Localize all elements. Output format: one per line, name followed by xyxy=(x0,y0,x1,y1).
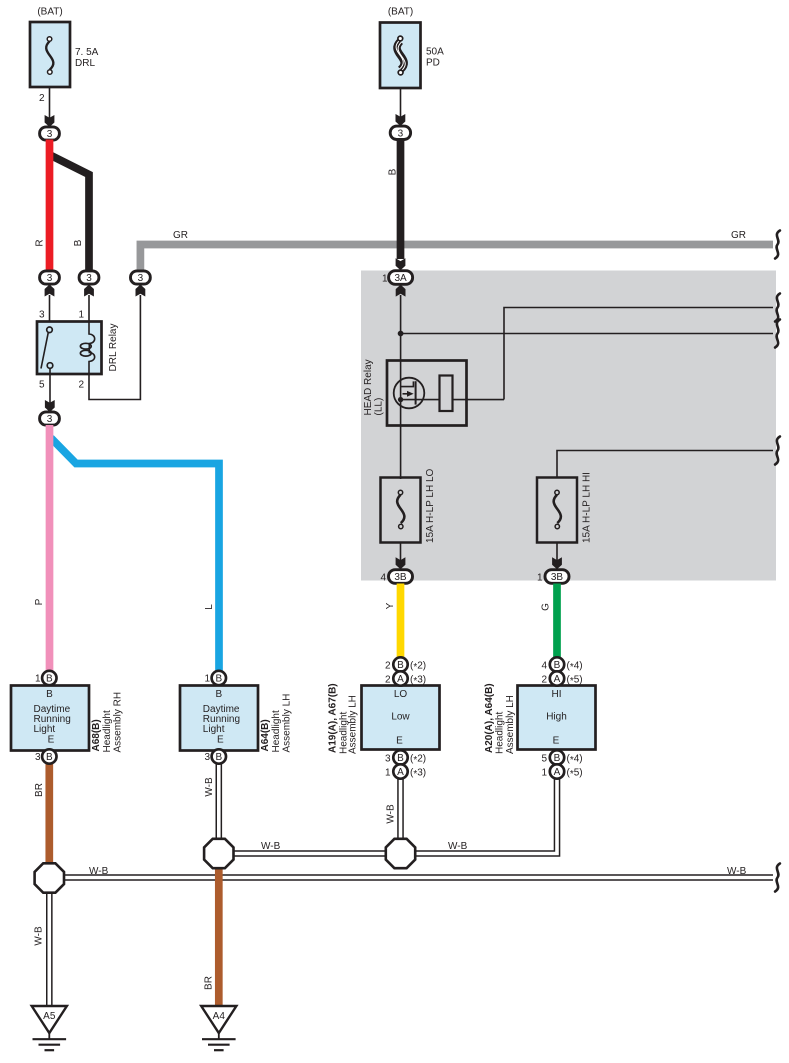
wire HI branch to right break xyxy=(557,451,773,478)
svg-text:Assembly RH: Assembly RH xyxy=(113,692,124,753)
wire fuse F4 to connector 3B xyxy=(556,543,558,562)
svg-text:15A H-LP LH HI: 15A H-LP LH HI xyxy=(582,472,593,543)
relay HEAD (LL) xyxy=(363,359,504,425)
svg-text:(*4): (*4) xyxy=(567,753,583,766)
svg-text:Light: Light xyxy=(34,724,56,735)
svg-text:(*3): (*3) xyxy=(410,674,426,687)
svg-text:Headlight: Headlight xyxy=(271,710,282,752)
pin 4 B (*4) of lamp HI xyxy=(541,657,582,673)
svg-text:A5: A5 xyxy=(43,1011,56,1022)
svg-text:3: 3 xyxy=(47,414,53,425)
pin 3 B of lamp A68 xyxy=(35,749,57,763)
svg-text:Assembly LH: Assembly LH xyxy=(505,695,516,754)
relay DRL xyxy=(37,322,119,375)
svg-text:Headlight: Headlight xyxy=(495,712,506,754)
wire relay pin5 down xyxy=(49,368,51,404)
lamp HI High beam A20(A) A64(B) xyxy=(518,686,596,750)
pin 1 B of lamp A64 xyxy=(204,671,226,685)
svg-text:Y: Y xyxy=(385,602,396,609)
svg-text:3: 3 xyxy=(39,310,45,321)
connector 3 (top mid) xyxy=(390,126,410,139)
svg-text:2: 2 xyxy=(385,660,391,671)
svg-text:W-B: W-B xyxy=(448,841,468,852)
break in wire GR xyxy=(775,231,780,259)
svg-text:3: 3 xyxy=(86,273,92,284)
wire relay pin1 to connector xyxy=(88,295,90,322)
svg-text:DRL: DRL xyxy=(75,58,95,69)
svg-text:15A H-LP LH LO: 15A H-LP LH LO xyxy=(425,468,436,543)
svg-text:GR: GR xyxy=(731,230,746,241)
wire main vertical in relay block xyxy=(400,295,402,479)
svg-text:(*2): (*2) xyxy=(410,660,426,673)
wire B branch (black) xyxy=(50,155,89,272)
lamp LO Low beam A19(A) A67(B) xyxy=(362,686,440,750)
wire R (red) xyxy=(46,140,54,272)
svg-text:A68(B): A68(B) xyxy=(91,719,102,751)
wire B (thick black) xyxy=(397,140,405,260)
svg-text:1: 1 xyxy=(385,767,391,778)
svg-text:A19(A), A67(B): A19(A), A67(B) xyxy=(328,683,339,753)
svg-text:B: B xyxy=(46,752,53,763)
svg-text:BR: BR xyxy=(204,976,215,990)
svg-text:A64(B): A64(B) xyxy=(260,719,271,751)
svg-text:5: 5 xyxy=(39,380,45,391)
wire BR from junction J2 to ground A4 xyxy=(215,862,223,1006)
wire junction to right break xyxy=(401,333,773,335)
pin 5 B (*4) of lamp HI xyxy=(541,750,582,766)
svg-text:3: 3 xyxy=(398,128,404,139)
junction J1 xyxy=(35,863,64,892)
svg-text:W-B: W-B xyxy=(204,777,215,797)
svg-text:E: E xyxy=(396,736,403,747)
svg-text:(*3): (*3) xyxy=(410,767,426,780)
svg-text:2: 2 xyxy=(541,674,547,685)
svg-text:P: P xyxy=(34,598,45,605)
wire W-B from lamp HI down and left to junction J2 xyxy=(231,779,557,854)
svg-text:3: 3 xyxy=(204,752,210,763)
svg-text:HEAD Relay: HEAD Relay xyxy=(363,359,374,415)
svg-text:LO: LO xyxy=(394,689,408,700)
svg-text:(BAT): (BAT) xyxy=(37,7,62,18)
svg-text:2: 2 xyxy=(385,674,391,685)
wire BR from lamp A68 to junction J1 xyxy=(45,764,53,868)
svg-text:Light: Light xyxy=(203,724,225,735)
wire fuse F3 to connector 3B xyxy=(400,543,402,562)
wire upper output to right break xyxy=(504,308,773,400)
svg-text:2: 2 xyxy=(39,93,45,104)
svg-text:B: B xyxy=(554,753,561,764)
svg-text:W-B: W-B xyxy=(386,804,397,824)
svg-text:1: 1 xyxy=(541,767,547,778)
svg-text:(BAT): (BAT) xyxy=(388,7,413,18)
svg-text:Assembly LH: Assembly LH xyxy=(282,694,293,753)
wire W-B from lamp A64 to junction J2 xyxy=(216,764,223,845)
svg-text:2: 2 xyxy=(78,380,84,391)
svg-text:3B: 3B xyxy=(394,572,407,583)
wire W-B horizontal lower (to right break) xyxy=(60,874,773,881)
svg-text:5: 5 xyxy=(541,753,547,764)
svg-text:W-B: W-B xyxy=(261,841,281,852)
svg-text:R: R xyxy=(35,239,46,246)
pin 3 B (*2) of lamp LO xyxy=(385,750,426,766)
wire fuse F1 to connector xyxy=(49,87,51,119)
svg-text:1: 1 xyxy=(537,573,543,584)
svg-text:Headlight: Headlight xyxy=(102,710,113,752)
pin 3 B of lamp A64 xyxy=(204,749,226,763)
wire L (blue) xyxy=(51,438,219,671)
svg-text:3: 3 xyxy=(35,752,41,763)
connector 3 (row 2, left) xyxy=(40,271,60,284)
svg-text:B: B xyxy=(46,673,53,684)
svg-text:E: E xyxy=(553,736,560,747)
svg-text:1: 1 xyxy=(35,674,41,685)
svg-text:B: B xyxy=(73,239,84,246)
svg-text:1: 1 xyxy=(382,274,388,285)
svg-text:W-B: W-B xyxy=(34,926,45,946)
connector 3B (right) xyxy=(537,570,569,584)
svg-text:E: E xyxy=(48,735,55,746)
junction dot xyxy=(398,331,404,337)
wire W-B from junction J1 to ground A5 xyxy=(46,890,53,1006)
lamp A68 Daytime Running Light RH xyxy=(11,686,89,751)
svg-text:3: 3 xyxy=(385,753,391,764)
ground A4 xyxy=(201,1006,236,1050)
svg-text:L: L xyxy=(204,604,215,610)
svg-text:High: High xyxy=(546,712,567,723)
svg-text:Assembly LH: Assembly LH xyxy=(348,695,359,754)
lamp A64 Daytime Running Light LH xyxy=(180,686,258,751)
svg-text:A: A xyxy=(554,767,561,778)
pin 2 B (*2) of lamp LO xyxy=(385,657,426,673)
svg-text:B: B xyxy=(397,660,404,671)
ground A5 xyxy=(32,1006,67,1050)
fuse F3 15A H-LP LH LO xyxy=(381,468,437,543)
svg-text:1: 1 xyxy=(78,310,84,321)
wire Y (yellow) xyxy=(397,584,405,659)
wire G (green) xyxy=(553,584,561,659)
svg-text:A: A xyxy=(554,674,561,685)
svg-text:GR: GR xyxy=(173,230,188,241)
svg-text:E: E xyxy=(217,735,224,746)
wire W-B from lamp LO to junction J3 xyxy=(397,779,404,854)
svg-text:PD: PD xyxy=(426,58,440,69)
svg-text:(*4): (*4) xyxy=(567,660,583,673)
relay block shaded panel xyxy=(361,271,776,581)
pin 1 B of lamp A68 xyxy=(35,671,57,685)
svg-text:3B: 3B xyxy=(551,572,564,583)
svg-text:(*5): (*5) xyxy=(567,674,583,687)
connector 3B (left) xyxy=(380,570,412,584)
connector 3 (row 2, right) xyxy=(131,271,151,284)
svg-text:4: 4 xyxy=(541,660,547,671)
wire GR (gray) xyxy=(140,245,773,271)
arrows into row-2 connectors xyxy=(45,285,55,297)
wire fuse F2 to connector xyxy=(400,88,402,117)
svg-text:B: B xyxy=(397,753,404,764)
svg-text:(*5): (*5) xyxy=(567,767,583,780)
connector 3 (row 2, mid) xyxy=(79,271,99,284)
junction J2 xyxy=(204,839,233,868)
connector 3A xyxy=(382,271,413,297)
pin 1 A (*3) of lamp LO xyxy=(385,764,426,780)
svg-text:(LL): (LL) xyxy=(374,398,385,416)
svg-text:G: G xyxy=(541,603,552,611)
svg-text:B: B xyxy=(388,168,399,175)
svg-text:B: B xyxy=(554,660,561,671)
svg-text:Low: Low xyxy=(391,712,410,723)
svg-text:A4: A4 xyxy=(213,1011,226,1022)
svg-text:BR: BR xyxy=(34,783,45,797)
wire relay pin3 to connector xyxy=(49,295,51,327)
svg-text:W-B: W-B xyxy=(727,866,747,877)
svg-text:W-B: W-B xyxy=(89,866,109,877)
svg-text:1: 1 xyxy=(204,674,210,685)
svg-text:B: B xyxy=(215,752,222,763)
connector 3 (below relay) xyxy=(40,412,60,425)
svg-text:3A: 3A xyxy=(394,273,407,284)
connector 3 (top left) xyxy=(40,127,60,140)
wire P (pink) xyxy=(46,425,54,671)
svg-text:7. 5A: 7. 5A xyxy=(75,47,99,58)
pin 1 A (*5) of lamp HI xyxy=(541,764,582,780)
fuse F4 15A H-LP LH HI xyxy=(537,472,593,543)
svg-text:B: B xyxy=(215,673,222,684)
fuse F1 7.5A DRL xyxy=(30,7,99,88)
svg-text:4: 4 xyxy=(380,573,386,584)
pin 2 A (*5) of lamp HI xyxy=(541,671,582,687)
wire relay pin2 to connector xyxy=(89,295,140,400)
svg-text:(*2): (*2) xyxy=(410,753,426,766)
svg-text:DRL Relay: DRL Relay xyxy=(108,324,119,372)
svg-text:A: A xyxy=(397,674,404,685)
svg-text:3: 3 xyxy=(47,129,53,140)
svg-text:B: B xyxy=(46,689,53,700)
svg-text:B: B xyxy=(215,689,222,700)
svg-text:3: 3 xyxy=(47,273,53,284)
fuse F2 50A PD xyxy=(380,7,444,89)
svg-text:50A: 50A xyxy=(426,47,444,58)
junction J3 xyxy=(386,839,415,868)
svg-text:A20(A), A64(B): A20(A), A64(B) xyxy=(484,683,495,753)
svg-text:3: 3 xyxy=(138,273,144,284)
svg-text:HI: HI xyxy=(552,689,562,700)
svg-text:A: A xyxy=(397,767,404,778)
pin 2 A (*3) of lamp LO xyxy=(385,671,426,687)
